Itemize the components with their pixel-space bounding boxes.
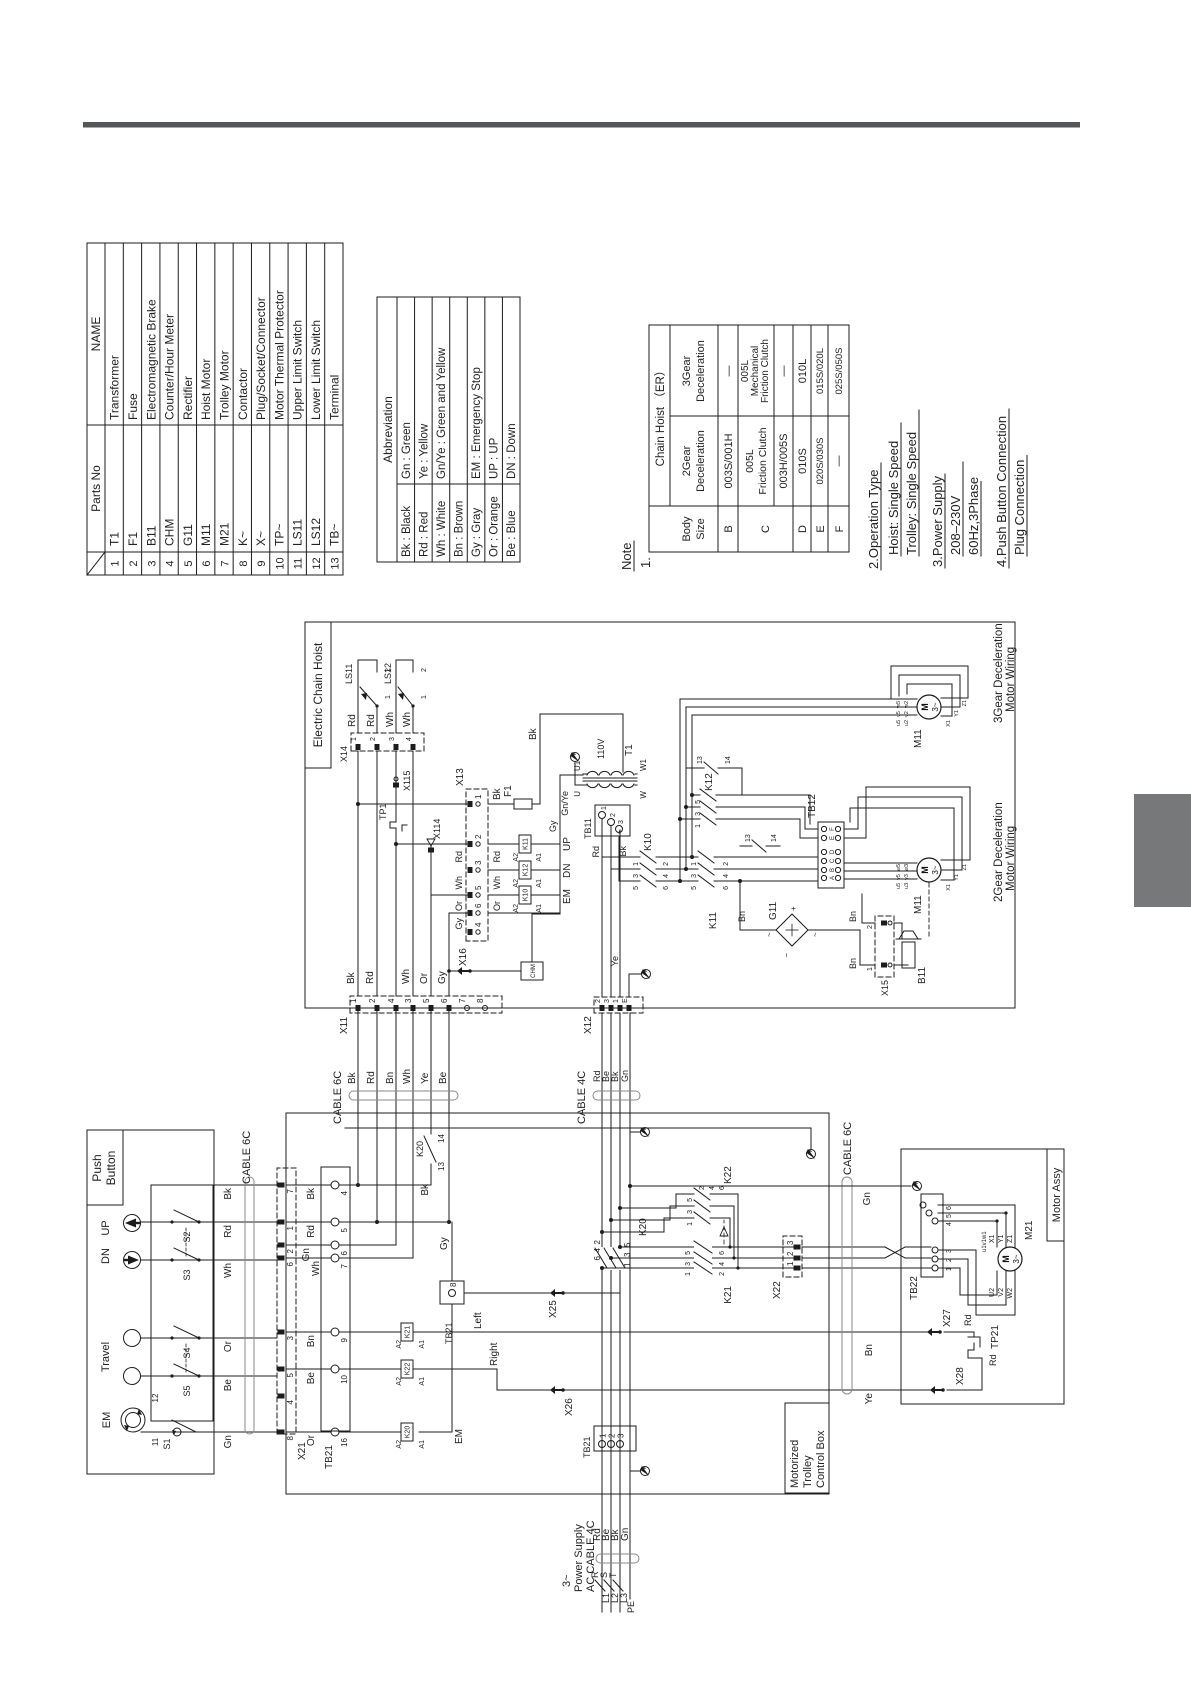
svg-text:1: 1: [351, 737, 358, 741]
svg-text:1: 1: [633, 862, 640, 866]
wire Bk TB21-4 down: [339, 1184, 431, 1186]
connector X114 pin: [427, 819, 442, 895]
svg-text:1: 1: [623, 1262, 632, 1267]
wires G11: [737, 879, 875, 969]
relay coils hoist K11 K12 K10: [488, 835, 573, 913]
svg-text:M: M: [920, 703, 930, 711]
parts table rows text: [108, 290, 342, 569]
svg-text:2: 2: [723, 862, 730, 866]
svg-text:Rd: Rd: [492, 851, 502, 863]
svg-text:Or: Or: [419, 972, 430, 984]
svg-text:Gy: Gy: [437, 971, 448, 984]
svg-text:Be: Be: [306, 1372, 317, 1385]
svg-text:Bn: Bn: [306, 1335, 317, 1347]
svg-text:K12: K12: [704, 773, 715, 791]
svg-text:X11: X11: [339, 1017, 350, 1034]
svg-text:1: 1: [599, 1433, 608, 1438]
svg-text:2: 2: [286, 1248, 295, 1253]
counter CHM box: [521, 914, 560, 980]
svg-text:6: 6: [474, 903, 483, 908]
svg-text:UP: UP: [100, 1220, 112, 1235]
svg-text:2: 2: [595, 999, 602, 1003]
svg-text:X16: X16: [458, 948, 469, 966]
svg-text:u5: u5: [896, 720, 902, 726]
svg-text:~: ~: [811, 932, 820, 937]
svg-text:6: 6: [663, 886, 670, 890]
svg-text:Electromagnetic Brake: Electromagnetic Brake: [144, 299, 158, 420]
svg-text:X115: X115: [402, 771, 412, 791]
wires TB12 to motor 2G: [844, 863, 917, 889]
svg-text:Ye : Yellow: Ye : Yellow: [418, 423, 430, 479]
svg-text:Gn: Gn: [223, 1435, 234, 1448]
contactor K10 wires: [602, 836, 692, 881]
contactor K11 contacts: [691, 851, 780, 929]
thermal protector TP1: [378, 803, 407, 833]
push button inner rect: [151, 1185, 213, 1421]
ground motor assy: [628, 1182, 922, 1206]
svg-text:Motorized: Motorized: [789, 1440, 801, 1488]
svg-text:M: M: [920, 866, 930, 874]
svg-text:LS11: LS11: [291, 519, 305, 546]
svg-text:S2: S2: [182, 1231, 192, 1242]
svg-text:Friction Clutch: Friction Clutch: [757, 427, 769, 494]
svg-text:11: 11: [293, 558, 305, 569]
connector X14 dashed strip: [351, 733, 424, 751]
svg-text:5: 5: [623, 1242, 632, 1247]
svg-text:—: —: [778, 366, 790, 377]
aux contact K12 13-14: [686, 756, 742, 795]
svg-text:Gn : Green: Gn : Green: [401, 422, 413, 479]
svg-text:—: —: [833, 456, 845, 467]
svg-text:1: 1: [286, 1225, 295, 1230]
svg-text:Be : Blue: Be : Blue: [506, 510, 518, 557]
svg-text:1: 1: [691, 862, 698, 866]
svg-text:Bk : Black: Bk : Black: [401, 506, 413, 557]
terminal TB11: [583, 805, 630, 839]
svg-text:Bn: Bn: [848, 958, 858, 969]
svg-text:+: +: [789, 906, 798, 911]
svg-text:U2: U2: [989, 1288, 996, 1297]
svg-text:Bk: Bk: [492, 787, 503, 800]
power bus L3 wire: [619, 1013, 621, 1612]
svg-text:M21: M21: [1024, 1220, 1035, 1240]
svg-text:Or : Orange: Or : Orange: [489, 496, 501, 557]
wire labels above X13: [454, 787, 503, 929]
svg-text:13: 13: [329, 557, 341, 569]
svg-text:Counter/Hour Meter: Counter/Hour Meter: [163, 314, 177, 420]
svg-text:Wh: Wh: [402, 712, 413, 727]
svg-text:3: 3: [687, 1210, 694, 1214]
wires X21 to TB21: [286, 1185, 331, 1432]
svg-text:Bk: Bk: [610, 1071, 620, 1082]
page side tab: [1134, 794, 1191, 907]
svg-text:X1: X1: [946, 720, 952, 727]
svg-text:EM: EM: [101, 1412, 113, 1429]
parts table frame: [87, 243, 343, 575]
svg-text:020S/030S: 020S/030S: [815, 437, 826, 484]
svg-text:u3: u3: [904, 883, 910, 889]
svg-text:D: D: [797, 525, 809, 533]
svg-text:Rd: Rd: [963, 1314, 973, 1326]
svg-text:3: 3: [404, 998, 413, 1003]
svg-text:v3: v3: [904, 874, 910, 880]
svg-text:8: 8: [449, 1282, 458, 1287]
svg-text:3: 3: [618, 820, 625, 824]
note table text: [654, 339, 846, 541]
svg-text:1: 1: [421, 695, 428, 699]
svg-text:Gy: Gy: [454, 918, 464, 930]
svg-text:u1v1w1: u1v1w1: [982, 1231, 988, 1252]
svg-text:6: 6: [723, 886, 730, 890]
svg-text:U: U: [573, 791, 582, 797]
switch S4: [166, 1326, 205, 1359]
svg-text:Lower Limit Switch: Lower Limit Switch: [309, 320, 323, 420]
svg-text:Fuse: Fuse: [126, 393, 140, 420]
svg-text:3~: 3~: [931, 865, 940, 874]
svg-text:12: 12: [311, 557, 323, 569]
switch S1 emergency contact: [151, 1393, 204, 1450]
svg-text:TB22: TB22: [909, 1276, 920, 1300]
svg-text:CABLE 4C: CABLE 4C: [576, 1071, 588, 1124]
svg-text:3: 3: [146, 560, 158, 566]
connector X22 dashed: [772, 1236, 802, 1299]
thermal protector TP21: [927, 1309, 1001, 1394]
wire to X11 pin5 with K20 aux contact: [415, 1008, 446, 1196]
svg-text:E: E: [830, 836, 836, 840]
svg-text:X25: X25: [548, 1300, 559, 1318]
power wire labels X12 side: [592, 1070, 630, 1082]
svg-text:Or: Or: [492, 901, 502, 911]
contactor K22 contact slashes: [687, 1166, 740, 1270]
svg-text:1: 1: [687, 1222, 694, 1226]
svg-text:3: 3: [623, 1252, 632, 1257]
svg-text:Y1: Y1: [954, 874, 960, 881]
abbreviation table text: [381, 347, 518, 557]
wire EM return: [345, 1128, 811, 1149]
svg-text:Or: Or: [306, 1434, 317, 1446]
svg-text:Or: Or: [454, 901, 464, 911]
svg-text:F: F: [830, 827, 836, 831]
fuse F1: [488, 785, 540, 809]
svg-text:003H/005S: 003H/005S: [778, 433, 790, 488]
svg-text:2: 2: [699, 1186, 706, 1190]
svg-text:D: D: [830, 849, 836, 854]
svg-text:TP21: TP21: [990, 1325, 1001, 1349]
svg-text:T1: T1: [108, 532, 122, 546]
svg-text:3Gear Deceleration: 3Gear Deceleration: [993, 623, 1005, 723]
svg-text:Rd: Rd: [306, 1225, 317, 1238]
svg-text:v5: v5: [896, 874, 902, 880]
cable sheath power 4C: [596, 1554, 639, 1563]
svg-text:Bn : Brown: Bn : Brown: [454, 501, 466, 557]
cable sheath 6C hoist: [349, 1091, 458, 1100]
brake link dashed 2G: [928, 882, 930, 936]
svg-text:M21: M21: [218, 522, 232, 546]
svg-text:2: 2: [610, 813, 617, 817]
svg-text:Gn/Ye: Gn/Ye: [560, 791, 570, 816]
svg-text:6: 6: [286, 1261, 295, 1266]
svg-text:Wh: Wh: [402, 1069, 413, 1084]
power bus L2 wire: [610, 1013, 612, 1612]
svg-text:Gy: Gy: [548, 820, 558, 832]
svg-text:v5: v5: [896, 711, 902, 717]
svg-text:2: 2: [370, 737, 377, 741]
hoist title cell: [305, 622, 331, 768]
cable sheath trolley 6C: [842, 1177, 852, 1394]
svg-text:3: 3: [286, 1335, 295, 1340]
svg-text:T: T: [608, 1572, 618, 1578]
coil return bus: [488, 775, 583, 914]
notes text block: [866, 409, 1027, 570]
svg-text:3.Power Supply: 3.Power Supply: [930, 475, 945, 567]
svg-text:K10: K10: [643, 833, 654, 851]
svg-text:1: 1: [474, 794, 483, 799]
terminal TB21 circles: [331, 1181, 349, 1447]
svg-text:5: 5: [422, 998, 431, 1003]
wire Gy TB21-8: [439, 1222, 452, 1281]
svg-text:K21: K21: [723, 1286, 734, 1304]
svg-text:Bk: Bk: [347, 1071, 358, 1084]
svg-text:4: 4: [723, 874, 730, 878]
terminal strip TB21: [321, 1167, 350, 1431]
svg-text:TP1: TP1: [378, 803, 388, 820]
svg-text:u2: u2: [904, 720, 910, 726]
svg-text:5: 5: [685, 1251, 692, 1255]
aux contact K11 13-14: [740, 834, 780, 852]
svg-text:13: 13: [697, 756, 704, 764]
svg-text:3: 3: [786, 1240, 795, 1245]
svg-text:4: 4: [593, 1247, 602, 1252]
svg-text:Bk: Bk: [306, 1187, 317, 1200]
contactor K10 contacts: [633, 833, 670, 890]
svg-text:X114: X114: [432, 819, 442, 839]
svg-text:~: ~: [765, 932, 774, 937]
svg-text:Plug Connection: Plug Connection: [1012, 460, 1027, 555]
svg-text:NAME: NAME: [89, 317, 103, 352]
svg-text:6: 6: [440, 998, 449, 1003]
svg-text:8: 8: [238, 560, 250, 566]
ground PE mid: [630, 1128, 650, 1137]
ground power entry: [630, 1467, 650, 1476]
transformer T1: [573, 739, 648, 799]
svg-text:CABLE 6C: CABLE 6C: [842, 1122, 854, 1175]
svg-text:Terminal: Terminal: [327, 375, 341, 420]
svg-text:3~: 3~: [1012, 1254, 1021, 1263]
svg-text:B11: B11: [917, 967, 928, 984]
switch S3: [166, 1226, 205, 1281]
svg-text:5: 5: [474, 885, 483, 890]
svg-text:Power Supply: Power Supply: [573, 1524, 585, 1592]
svg-text:Wh: Wh: [385, 712, 396, 727]
motor assy title cell: [1047, 1149, 1064, 1241]
svg-text:2.Operation Type: 2.Operation Type: [866, 470, 881, 570]
trolley motor M21: [998, 1220, 1035, 1271]
power bus L1 wire: [601, 1013, 603, 1612]
contactor K22 taps: [600, 1194, 694, 1234]
svg-text:A1: A1: [536, 904, 543, 913]
svg-text:1: 1: [786, 1261, 795, 1266]
svg-text:A2: A2: [396, 1440, 403, 1449]
wire to X11 pin1: [357, 1008, 359, 1185]
svg-text:2: 2: [593, 1239, 602, 1244]
svg-text:TB12: TB12: [807, 794, 818, 818]
svg-text:EM: EM: [562, 889, 573, 904]
svg-text:6: 6: [719, 1186, 726, 1190]
svg-text:v2: v2: [904, 711, 910, 717]
svg-text:K~: K~: [236, 531, 250, 546]
svg-text:Abbreviation: Abbreviation: [381, 396, 395, 463]
svg-text:208–230V: 208–230V: [948, 495, 963, 555]
svg-text:M: M: [1001, 1255, 1011, 1263]
svg-text:Wh : White: Wh : White: [436, 501, 448, 557]
svg-text:M11: M11: [913, 895, 924, 914]
svg-text:5: 5: [687, 1198, 694, 1202]
hoist motor M11 2gear: [913, 858, 941, 914]
control box title cell: [785, 1403, 829, 1493]
wire Rd TB21-5 down: [339, 1221, 449, 1223]
svg-text:2: 2: [421, 668, 428, 672]
svg-text:X~: X~: [254, 531, 268, 546]
svg-text:4: 4: [719, 1262, 726, 1266]
svg-text:Deceleration: Deceleration: [695, 340, 707, 402]
button UP: [100, 1215, 141, 1236]
svg-text:5: 5: [183, 560, 195, 566]
svg-text:2: 2: [719, 1272, 726, 1276]
svg-text:Electric Chain Hoist: Electric Chain Hoist: [311, 642, 325, 747]
buttons Travel: [100, 1330, 141, 1385]
svg-text:14: 14: [771, 834, 778, 842]
svg-text:2: 2: [663, 862, 670, 866]
svg-text:2: 2: [474, 834, 483, 839]
svg-text:X26: X26: [564, 1398, 575, 1416]
svg-text:EM : Emergency Stop: EM : Emergency Stop: [471, 367, 483, 479]
svg-text:A1: A1: [419, 1377, 426, 1386]
svg-text:—: —: [723, 366, 735, 377]
wire hoist Wh2: [394, 751, 467, 996]
connector X21 dashed strip: [277, 1168, 296, 1434]
svg-text:Trolley Motor: Trolley Motor: [218, 350, 232, 420]
svg-text:Trolley: Single Speed: Trolley: Single Speed: [904, 432, 919, 555]
connector X11 dashed strip: [350, 996, 502, 1013]
svg-text:Bn: Bn: [737, 911, 747, 922]
svg-text:14: 14: [725, 756, 732, 764]
svg-text:Control Box: Control Box: [815, 1430, 827, 1488]
svg-text:6: 6: [340, 1250, 349, 1255]
svg-text:1: 1: [601, 806, 608, 810]
svg-text:1: 1: [385, 695, 392, 699]
svg-text:−: −: [782, 953, 791, 958]
terminal strip TB22: [909, 1194, 953, 1300]
svg-text:110V: 110V: [596, 739, 606, 759]
svg-text:S5: S5: [182, 1385, 192, 1396]
power supply labels: [561, 1520, 631, 1592]
wires 3G motor nest: [680, 699, 917, 726]
svg-text:A2: A2: [396, 1377, 403, 1386]
svg-text:G11: G11: [181, 524, 195, 546]
cable sheath 4C hoist: [593, 1091, 640, 1100]
svg-text:K11: K11: [523, 838, 530, 850]
svg-text:CABLE 6C: CABLE 6C: [332, 1071, 344, 1124]
contactor K20 main contacts: [593, 1218, 649, 1270]
svg-text:TB~: TB~: [327, 524, 341, 546]
svg-text:2: 2: [786, 1251, 795, 1256]
svg-text:X1: X1: [946, 884, 952, 891]
svg-text:A1: A1: [419, 1340, 426, 1349]
svg-text:Left: Left: [473, 1312, 484, 1329]
svg-text:X14: X14: [339, 746, 349, 762]
svg-text:60Hz,3Phase: 60Hz,3Phase: [966, 477, 981, 555]
svg-text:F1: F1: [503, 785, 514, 797]
svg-text:7: 7: [286, 1188, 295, 1193]
svg-text:Transformer: Transformer: [108, 355, 122, 420]
svg-text:C: C: [830, 858, 836, 863]
svg-text:S3: S3: [182, 1269, 192, 1280]
button DN: [100, 1248, 141, 1268]
svg-text:7: 7: [458, 998, 467, 1003]
svg-text:X15: X15: [880, 980, 890, 996]
svg-text:X12: X12: [583, 1016, 594, 1034]
wires K11 to TB12: [780, 795, 818, 881]
svg-text:K20: K20: [405, 1426, 412, 1439]
svg-text:Z1: Z1: [962, 864, 968, 870]
limit switch LS11: [344, 660, 392, 733]
svg-text:C: C: [760, 525, 772, 533]
svg-text:1: 1: [110, 560, 122, 566]
wires push button to X21: [141, 1185, 277, 1432]
motor assy box: [901, 1149, 1064, 1404]
svg-text:E: E: [815, 525, 827, 532]
svg-text:1: 1: [685, 1272, 692, 1276]
svg-text:K12: K12: [523, 864, 530, 877]
svg-text:7: 7: [220, 560, 232, 566]
relay coil K20: [339, 1423, 426, 1449]
connector X115 pin: [393, 771, 412, 791]
svg-text:5: 5: [340, 1227, 349, 1232]
svg-text:W2: W2: [1007, 1288, 1014, 1299]
brake B11: [894, 923, 928, 984]
wires TB22 to motor M21 upper: [938, 1205, 1015, 1252]
svg-text:Rd: Rd: [365, 971, 376, 984]
svg-text:6: 6: [201, 560, 213, 566]
electric chain hoist box: [305, 622, 1015, 1008]
svg-text:Push: Push: [90, 1154, 104, 1181]
svg-text:Rd: Rd: [223, 1225, 234, 1238]
svg-text:2: 2: [128, 560, 140, 566]
svg-text:A1: A1: [419, 1440, 426, 1449]
svg-text:A1: A1: [536, 879, 543, 888]
svg-text:8: 8: [476, 998, 485, 1003]
svg-text:4: 4: [946, 1222, 953, 1226]
svg-text:Wh: Wh: [223, 1263, 234, 1278]
svg-text:B11: B11: [144, 525, 158, 546]
svg-text:M11: M11: [913, 729, 924, 748]
svg-text:Bk: Bk: [346, 971, 357, 984]
svg-text:2: 2: [867, 925, 874, 929]
svg-text:9: 9: [340, 1337, 349, 1342]
svg-text:Z1: Z1: [962, 700, 968, 706]
svg-text:EM: EM: [454, 1429, 465, 1444]
svg-text:Size: Size: [695, 518, 707, 539]
svg-text:W: W: [639, 791, 648, 799]
connector X13 dashed strip: [466, 789, 488, 941]
svg-text:Gn: Gn: [620, 1528, 631, 1541]
wires X12 to TB11: [591, 819, 628, 996]
svg-text:Gy : Gray: Gy : Gray: [471, 508, 483, 557]
svg-text:Parts No: Parts No: [89, 465, 103, 512]
wire to X11 pin2: [376, 1008, 378, 1222]
svg-text:4: 4: [474, 922, 483, 927]
terminal TB21-8 box: [440, 1281, 464, 1344]
